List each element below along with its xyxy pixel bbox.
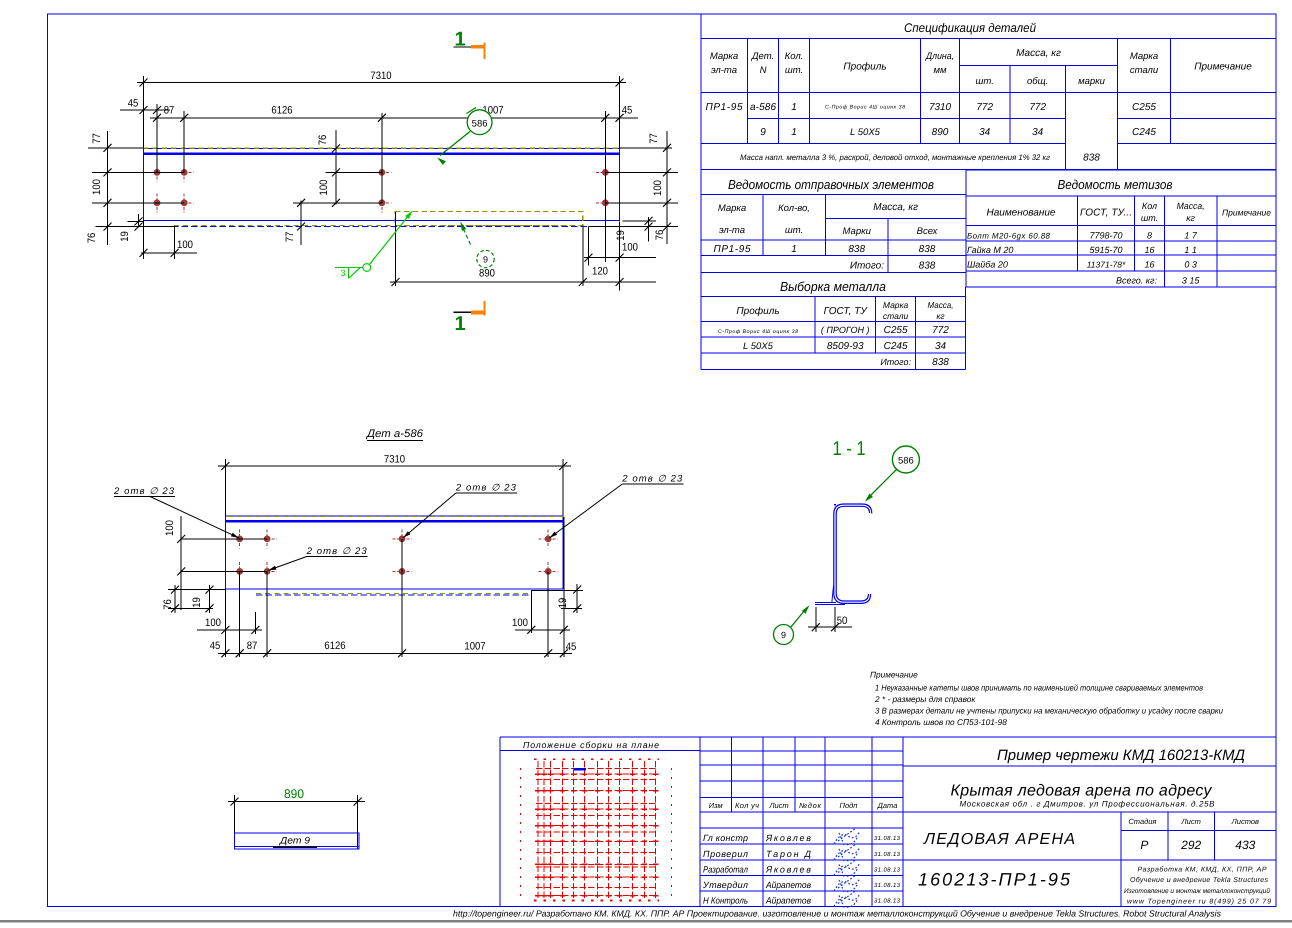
svg-text:Длина,: Длина, xyxy=(925,51,954,62)
svg-text:ПР1-95: ПР1-95 xyxy=(706,102,743,113)
svg-text:Итого:: Итого: xyxy=(880,357,911,367)
svg-text:772: 772 xyxy=(1029,102,1046,113)
svg-text:Масса, кг: Масса, кг xyxy=(873,202,918,213)
svg-text:87: 87 xyxy=(164,105,175,117)
svg-text:50: 50 xyxy=(837,615,848,627)
svg-text:Масса, кг: Масса, кг xyxy=(1016,48,1061,59)
svg-text:Изготовление и монтаж металлок: Изготовление и монтаж металлоконструкций xyxy=(1124,887,1270,895)
svg-text:Айрапетов: Айрапетов xyxy=(765,896,811,906)
svg-text:L 50X5: L 50X5 xyxy=(743,341,774,352)
svg-text:76: 76 xyxy=(162,599,174,610)
svg-text:0 3: 0 3 xyxy=(1184,260,1197,270)
svg-text:марки: марки xyxy=(1078,76,1106,87)
svg-text:Подп: Подп xyxy=(840,801,858,810)
svg-text:1: 1 xyxy=(454,29,465,51)
svg-text:5915-70: 5915-70 xyxy=(1089,245,1122,255)
svg-text:Московская обл . г Дмитров. у: Московская обл . г Дмитров. ул Профессио… xyxy=(960,800,1216,809)
svg-text:кг: кг xyxy=(1186,213,1195,223)
svg-text:ЛЕДОВАЯ АРЕНА: ЛЕДОВАЯ АРЕНА xyxy=(923,831,1075,848)
svg-text:16: 16 xyxy=(1144,260,1154,270)
svg-text:Масса,: Масса, xyxy=(928,300,954,310)
svg-text:838: 838 xyxy=(919,244,936,255)
svg-text:1: 1 xyxy=(791,244,797,255)
svg-text:Шайба 20: Шайба 20 xyxy=(967,260,1008,270)
svg-text:890: 890 xyxy=(479,268,495,280)
svg-text:2 * - размеры для справок: 2 * - размеры для справок xyxy=(874,694,976,704)
svg-text:Обучение и внедрение Tekla St: Обучение и внедрение Tekla Structures xyxy=(1130,876,1269,884)
svg-text:31.08.13: 31.08.13 xyxy=(874,882,901,889)
svg-text:L 50X5: L 50X5 xyxy=(850,127,881,138)
svg-text:Ведомость метизов: Ведомость метизов xyxy=(1058,177,1173,192)
svg-text:433: 433 xyxy=(1235,838,1255,852)
svg-text:76: 76 xyxy=(654,230,666,241)
svg-text:кг: кг xyxy=(936,311,944,321)
svg-text:Дет а-586: Дет а-586 xyxy=(365,428,424,440)
svg-text:772: 772 xyxy=(976,102,993,113)
svg-text:Дет 9: Дет 9 xyxy=(279,836,311,847)
svg-text:Кол.: Кол. xyxy=(785,51,804,62)
svg-text:772: 772 xyxy=(932,325,949,336)
svg-text:стали: стали xyxy=(1130,65,1159,76)
svg-text:3 15: 3 15 xyxy=(1182,276,1201,286)
svg-text:№док: №док xyxy=(799,801,821,810)
svg-text:Профиль: Профиль xyxy=(843,62,886,73)
svg-text:Изм: Изм xyxy=(709,801,723,810)
svg-text:Тарон Д: Тарон Д xyxy=(766,849,812,859)
svg-text:87: 87 xyxy=(247,640,258,652)
svg-text:3 В размерах детали не учтены: 3 В размерах детали не учтены припуски н… xyxy=(875,706,1223,716)
svg-text:76: 76 xyxy=(86,233,98,244)
svg-text:1: 1 xyxy=(791,102,797,113)
svg-text:Гайка М 20: Гайка М 20 xyxy=(967,245,1013,255)
svg-text:Крытая ледовая арена по адресу: Крытая ледовая арена по адресу xyxy=(951,783,1213,800)
svg-text:стали: стали xyxy=(883,311,909,321)
svg-text:2 отв ∅ 23: 2 отв ∅ 23 xyxy=(455,483,517,494)
svg-text:Разработал: Разработал xyxy=(703,865,748,875)
svg-text:100: 100 xyxy=(652,180,664,196)
svg-text:1: 1 xyxy=(454,313,465,335)
svg-text:С255: С255 xyxy=(1132,102,1156,113)
svg-text:2 отв ∅ 23: 2 отв ∅ 23 xyxy=(113,486,175,497)
svg-text:34: 34 xyxy=(935,341,947,352)
svg-text:www Topengineer ru 8(49: www Topengineer ru 8(499) 25 07 79 xyxy=(1127,898,1271,906)
svg-text:8509-93: 8509-93 xyxy=(827,341,864,352)
svg-text:Примечание: Примечание xyxy=(1194,62,1252,73)
svg-text:эл-та: эл-та xyxy=(719,225,745,236)
svg-text:эл-та: эл-та xyxy=(711,65,737,76)
svg-text:6126: 6126 xyxy=(271,105,292,117)
svg-text:1: 1 xyxy=(791,127,797,138)
svg-text:1 - 1: 1 - 1 xyxy=(833,438,866,460)
svg-text:Стадия: Стадия xyxy=(1128,817,1156,826)
svg-text:45: 45 xyxy=(210,640,221,652)
svg-text:Пример чертежи КМД 160213-КМД: Пример чертежи КМД 160213-КМД xyxy=(997,747,1245,764)
svg-text:С-Проф Ворис 4Ш оцинк 38: С-Проф Ворис 4Ш оцинк 38 xyxy=(718,329,798,335)
svg-text:100: 100 xyxy=(512,617,528,629)
svg-text:838: 838 xyxy=(919,261,936,272)
svg-text:общ.: общ. xyxy=(1027,76,1048,87)
svg-text:838: 838 xyxy=(932,357,949,368)
svg-text:Айрапетов: Айрапетов xyxy=(765,880,811,890)
svg-text:Дет.: Дет. xyxy=(751,51,774,62)
svg-text:Лист: Лист xyxy=(1181,817,1201,826)
svg-text:31.08.13: 31.08.13 xyxy=(874,898,901,905)
svg-text:Марки: Марки xyxy=(843,226,872,237)
svg-text:100: 100 xyxy=(205,617,221,629)
svg-text:Марка: Марка xyxy=(710,51,738,62)
svg-text:34: 34 xyxy=(979,127,991,138)
svg-text:1007: 1007 xyxy=(464,641,485,653)
svg-text:9: 9 xyxy=(760,127,766,138)
svg-text:9: 9 xyxy=(483,255,488,265)
svg-text:292: 292 xyxy=(1180,838,1201,852)
svg-text:http://topengineer.ru/ Разраб: http://topengineer.ru/ Разработано КМ. К… xyxy=(453,909,1222,919)
svg-text:Дата: Дата xyxy=(877,801,898,810)
svg-text:45: 45 xyxy=(622,105,633,117)
svg-text:8: 8 xyxy=(1147,231,1152,241)
svg-text:Марка: Марка xyxy=(718,203,746,214)
svg-text:76: 76 xyxy=(317,135,329,146)
svg-text:6126: 6126 xyxy=(324,640,345,652)
svg-text:Кол-во,: Кол-во, xyxy=(778,203,810,214)
svg-text:11371-78*: 11371-78* xyxy=(1087,260,1126,270)
svg-text:2 отв ∅ 23: 2 отв ∅ 23 xyxy=(621,474,683,485)
svg-text:шт.: шт. xyxy=(976,76,994,87)
svg-text:Примечание: Примечание xyxy=(1222,208,1271,218)
svg-text:Марка: Марка xyxy=(883,300,909,310)
svg-text:Положение сборки на плане: Положение сборки на плане xyxy=(523,740,659,750)
svg-text:Масса напл. металла 3 %, раскр: Масса напл. металла 3 %, раскрой, делово… xyxy=(740,153,1050,162)
svg-text:3: 3 xyxy=(340,268,345,278)
svg-text:7310: 7310 xyxy=(929,102,951,113)
svg-text:100: 100 xyxy=(164,520,176,536)
svg-text:С245: С245 xyxy=(884,341,908,352)
svg-text:7798-70: 7798-70 xyxy=(1089,231,1122,241)
svg-text:19: 19 xyxy=(557,598,569,609)
svg-text:Р: Р xyxy=(1140,838,1148,852)
svg-text:77: 77 xyxy=(91,133,103,144)
svg-text:1 Неуказанные катеты швов при: 1 Неуказанные катеты швов принимать по н… xyxy=(875,683,1204,693)
svg-text:586: 586 xyxy=(898,456,914,467)
svg-text:N: N xyxy=(760,65,767,76)
svg-text:100: 100 xyxy=(91,179,103,195)
svg-text:Проверил: Проверил xyxy=(703,849,748,859)
svg-text:7310: 7310 xyxy=(384,454,405,466)
svg-text:16: 16 xyxy=(1144,245,1154,255)
svg-text:Гл констр: Гл констр xyxy=(703,833,748,843)
svg-text:Всего. кг:: Всего. кг: xyxy=(1116,276,1158,286)
svg-text:а-586: а-586 xyxy=(750,102,776,113)
svg-text:С-Проф Ворис 4Ш оцинк 38: С-Проф Ворис 4Ш оцинк 38 xyxy=(825,105,905,111)
svg-text:Профиль: Профиль xyxy=(736,306,779,317)
svg-text:Спецификация деталей: Спецификация деталей xyxy=(904,21,1036,35)
svg-text:2 отв ∅ 23: 2 отв ∅ 23 xyxy=(306,546,368,557)
svg-text:Лист: Лист xyxy=(768,801,788,810)
svg-text:Утвердил: Утвердил xyxy=(702,880,748,890)
svg-text:шт.: шт. xyxy=(785,225,803,236)
svg-text:100: 100 xyxy=(318,180,330,196)
svg-text:31.08.13: 31.08.13 xyxy=(874,835,901,842)
svg-text:1 7: 1 7 xyxy=(1184,231,1198,241)
svg-text:19: 19 xyxy=(119,231,131,242)
svg-text:586: 586 xyxy=(472,119,488,130)
svg-text:Марка: Марка xyxy=(1130,51,1158,62)
svg-text:890: 890 xyxy=(284,787,304,801)
svg-text:С245: С245 xyxy=(1132,127,1156,138)
svg-text:31.08.13: 31.08.13 xyxy=(874,851,901,858)
svg-text:100: 100 xyxy=(177,239,193,251)
svg-text:Разработка КМ, КМД, КХ, ППР, А: Разработка КМ, КМД, КХ, ППР, АР xyxy=(1138,866,1267,874)
svg-text:Н Контроль: Н Контроль xyxy=(703,896,748,906)
svg-text:Яковлев: Яковлев xyxy=(765,833,811,843)
svg-text:77: 77 xyxy=(648,133,660,144)
svg-text:Наименование: Наименование xyxy=(986,208,1055,219)
svg-text:Листов: Листов xyxy=(1231,817,1259,826)
svg-text:шт.: шт. xyxy=(1141,213,1158,223)
svg-text:45: 45 xyxy=(566,641,577,653)
svg-text:ГОСТ, ТУ: ГОСТ, ТУ xyxy=(824,306,869,317)
svg-text:ПР1-95: ПР1-95 xyxy=(714,244,751,255)
svg-text:мм: мм xyxy=(933,65,947,76)
svg-text:1 1: 1 1 xyxy=(1184,245,1197,255)
svg-text:Кол: Кол xyxy=(1142,201,1157,211)
svg-text:838: 838 xyxy=(1083,153,1100,164)
svg-text:Итого:: Итого: xyxy=(850,261,884,272)
svg-text:890: 890 xyxy=(932,127,949,138)
svg-text:19: 19 xyxy=(191,597,203,608)
svg-text:Болт М20-6gх 60.88: Болт М20-6gх 60.88 xyxy=(967,232,1051,241)
svg-text:Кол уч: Кол уч xyxy=(735,801,759,810)
svg-text:Ведомость отправочных элементо: Ведомость отправочных элементов xyxy=(728,177,934,192)
svg-text:4 Контроль швов по СП53-101-9: 4 Контроль швов по СП53-101-98 xyxy=(875,717,1007,727)
svg-text:120: 120 xyxy=(592,266,608,278)
svg-text:Выборка металла: Выборка металла xyxy=(780,279,886,294)
svg-text:45: 45 xyxy=(128,98,139,110)
svg-text:19: 19 xyxy=(615,230,627,241)
svg-text:шт.: шт. xyxy=(785,65,803,76)
svg-text:77: 77 xyxy=(284,232,296,243)
svg-text:7310: 7310 xyxy=(370,70,391,82)
svg-text:( ПРОГОН ): ( ПРОГОН ) xyxy=(821,325,870,335)
svg-text:ГОСТ, ТУ...: ГОСТ, ТУ... xyxy=(1080,208,1132,219)
svg-text:9: 9 xyxy=(781,630,786,640)
svg-text:Яковлев: Яковлев xyxy=(765,865,811,875)
svg-text:Масса,: Масса, xyxy=(1177,201,1205,211)
svg-text:34: 34 xyxy=(1032,127,1044,138)
svg-text:Примечание: Примечание xyxy=(870,670,918,680)
svg-text:С255: С255 xyxy=(884,325,908,336)
svg-text:100: 100 xyxy=(622,242,638,254)
svg-text:Всех: Всех xyxy=(917,226,939,237)
svg-text:31.08.13: 31.08.13 xyxy=(874,867,901,874)
svg-text:838: 838 xyxy=(848,244,865,255)
